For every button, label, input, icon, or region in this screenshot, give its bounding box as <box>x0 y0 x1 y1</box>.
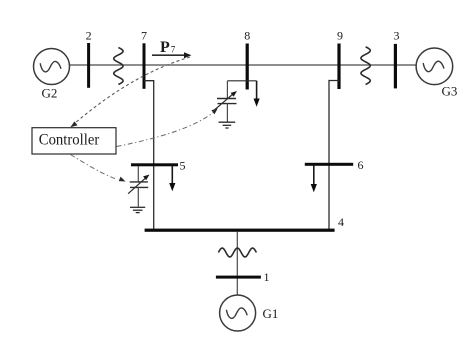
capacitor SVC at bus 5 <box>130 182 149 207</box>
dash-dot control line controller to bus-8 SVC <box>117 108 218 146</box>
svg-text:7: 7 <box>171 45 176 55</box>
variable arrow of SVC at bus 5 <box>128 175 149 194</box>
svg-text:P: P <box>160 39 170 56</box>
svg-text:7: 7 <box>141 29 147 43</box>
wire bus8 lateral stub <box>227 80 256 82</box>
arrow P7 power-flow measurement <box>152 52 191 58</box>
bus 5 <box>131 163 178 166</box>
dash-dot control line controller to bus-5 SVC <box>71 155 126 182</box>
wire SVC branch at bus 5 <box>137 166 139 182</box>
svg-text:G1: G1 <box>263 306 279 321</box>
svg-text:Controller: Controller <box>39 132 100 149</box>
label 5 <box>180 159 186 173</box>
bus 6 <box>305 163 353 166</box>
wire bus7 stub down to feeder <box>144 81 154 230</box>
transformer T2 (bus9 - bus3) <box>361 47 370 85</box>
svg-text:1: 1 <box>264 270 270 284</box>
generator G1 <box>220 295 256 331</box>
label 4 <box>338 215 344 229</box>
label 3 <box>394 29 400 43</box>
svg-text:8: 8 <box>244 29 250 43</box>
generator G3 <box>416 48 453 85</box>
controller box U1 <box>32 128 116 154</box>
svg-text:2: 2 <box>86 29 92 43</box>
bus 9 <box>337 44 340 90</box>
label G2 <box>42 86 58 101</box>
ground at bus-8 SVC <box>219 122 236 128</box>
label P7 <box>160 39 176 56</box>
capacitor SVC at bus 8 <box>217 99 237 123</box>
label 6 <box>358 158 364 172</box>
svg-text:G3: G3 <box>442 84 458 99</box>
label 1 <box>264 270 270 284</box>
load arrow at bus 6 <box>311 166 317 193</box>
generator G2 <box>34 49 70 85</box>
label 7 <box>141 29 147 43</box>
wire SVC branch at bus 8 <box>226 81 228 98</box>
wire bus4 down to transformer T3 and bus 1 <box>236 232 238 296</box>
svg-text:G2: G2 <box>42 86 58 101</box>
bus 2 <box>87 43 90 88</box>
label G3 <box>442 84 458 99</box>
label 8 <box>244 29 250 43</box>
transformer T1 (bus2 - bus7) <box>114 48 123 85</box>
transformer T3 (bus4 - bus1) <box>218 248 256 257</box>
svg-text:5: 5 <box>180 159 186 173</box>
dashed measurement line P7 to controller <box>70 57 190 127</box>
bus 7 <box>143 43 146 89</box>
svg-text:9: 9 <box>337 29 343 43</box>
ground at bus-5 SVC <box>130 207 145 212</box>
svg-text:3: 3 <box>394 29 400 43</box>
load arrow at bus 8 <box>254 81 260 107</box>
variable arrow of SVC at bus 8 <box>214 91 238 111</box>
label G1 <box>263 306 279 321</box>
wire bus9 stub down to feeder <box>329 81 339 231</box>
label 2 <box>86 29 92 43</box>
bus 1 <box>216 276 261 279</box>
wire: main transmission line bus2-bus7-bus8-bus9-bus3 <box>70 64 417 66</box>
load arrow at bus 5 <box>169 166 175 191</box>
svg-text:6: 6 <box>358 158 364 172</box>
bus 8 <box>246 44 249 90</box>
bus 4 <box>145 229 335 232</box>
label 9 <box>337 29 343 43</box>
svg-text:4: 4 <box>338 215 344 229</box>
bus 3 <box>394 44 397 89</box>
